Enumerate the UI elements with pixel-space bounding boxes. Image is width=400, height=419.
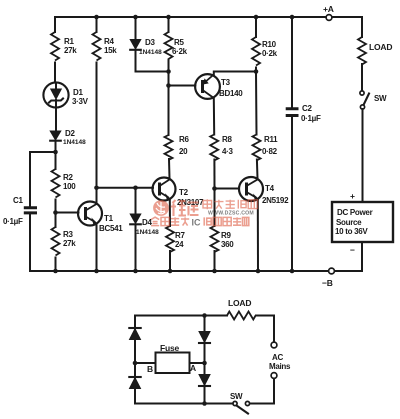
- resistor LOAD (top): [358, 37, 366, 65]
- wire fuse B: [135, 362, 156, 364]
- svg-text:T3: T3: [221, 78, 231, 87]
- svg-text:R7: R7: [175, 231, 185, 240]
- wire fuse A: [190, 362, 205, 364]
- svg-text:R2: R2: [63, 173, 73, 182]
- svg-text:1N4148: 1N4148: [63, 139, 86, 146]
- svg-text:R1: R1: [64, 37, 74, 46]
- wire SW to DC source: [362, 109, 364, 202]
- wire T4 emitter to rail: [257, 200, 259, 272]
- svg-text:WWW.DZSC.COM: WWW.DZSC.COM: [208, 211, 254, 217]
- wire R10 top: [255, 17, 257, 37]
- wire right branch to LOAD: [361, 17, 363, 37]
- wire D4 top: [135, 188, 137, 214]
- node AC mains top: [271, 342, 277, 348]
- watermark big char 1: [171, 200, 199, 216]
- wire R3 to bottom rail: [55, 258, 57, 272]
- resistor R6: [165, 135, 173, 160]
- wire R4 to T1 collector node: [96, 63, 98, 188]
- node C2 top: [290, 15, 295, 20]
- diode D3 1N4148: [130, 40, 141, 50]
- node R10 top: [254, 15, 259, 20]
- diode D1 zener 3.3V: [43, 82, 68, 107]
- svg-text:R10: R10: [262, 40, 277, 49]
- wire D1 to D2: [55, 108, 57, 132]
- svg-text:Fuse: Fuse: [160, 343, 180, 353]
- watermark big char 2: [188, 203, 199, 216]
- svg-text:T2: T2: [179, 188, 189, 197]
- watermark slogan chars: [151, 217, 249, 227]
- svg-text:R9: R9: [221, 231, 231, 240]
- wire T3 emitter to R10/R11 node: [214, 72, 256, 75]
- svg-text:D2: D2: [65, 129, 75, 138]
- svg-text:0·2k: 0·2k: [262, 49, 278, 58]
- node T4 emitter rail: [256, 269, 261, 274]
- node D3 top: [133, 15, 138, 20]
- svg-text:LOAD: LOAD: [228, 298, 251, 308]
- wire R9 to rail: [214, 251, 216, 271]
- watermark site name chars: [203, 199, 257, 209]
- svg-text:R5: R5: [174, 38, 184, 47]
- svg-text:Source: Source: [336, 218, 362, 227]
- wire DC source to bottom rail: [361, 242, 363, 271]
- node R2/R3 to T1 base: [53, 210, 58, 215]
- svg-text:360: 360: [221, 240, 234, 249]
- node T1 collector / T2 base: [94, 185, 99, 190]
- diode bridge bottom-left: [129, 376, 140, 378]
- svg-text:R3: R3: [63, 230, 73, 239]
- node R5 top: [166, 15, 171, 20]
- svg-text:0·82: 0·82: [262, 147, 278, 156]
- wire SW to bridge bottom: [135, 403, 233, 405]
- svg-text:27k: 27k: [63, 239, 76, 248]
- svg-text:+: +: [350, 191, 355, 201]
- svg-text:T1: T1: [104, 214, 114, 223]
- transistor T2 2N3107: [153, 178, 176, 201]
- node R9 rail: [212, 269, 217, 274]
- svg-text:T4: T4: [265, 184, 275, 193]
- svg-text:R11: R11: [264, 135, 278, 144]
- wire LOAD to AC mains: [256, 316, 274, 343]
- wire C1 bottom: [29, 215, 31, 272]
- svg-text:15k: 15k: [104, 46, 117, 55]
- resistor R7: [166, 226, 174, 252]
- resistor R4: [93, 32, 101, 61]
- svg-text:C2: C2: [302, 104, 312, 113]
- wire bottom rail: [30, 270, 362, 272]
- DC power source box U1: [332, 202, 393, 242]
- node D3 elbow: [166, 69, 171, 74]
- fuse F1 box: [156, 353, 190, 374]
- wire T4 base: [215, 188, 240, 190]
- wire R2 to R3: [55, 200, 57, 228]
- svg-text:0·1µF: 0·1µF: [301, 114, 321, 123]
- svg-text:IC: IC: [192, 217, 202, 227]
- transistor T3 BD140 (PNP): [195, 74, 220, 99]
- wire R6 to T2 collector: [168, 159, 171, 179]
- svg-text:AC: AC: [272, 353, 283, 362]
- wire R10 to node: [255, 68, 257, 72]
- wire bridge right vertical: [204, 316, 206, 404]
- svg-text:100: 100: [63, 182, 76, 191]
- svg-text:C1: C1: [13, 196, 23, 205]
- diode D2 1N4148: [50, 131, 61, 140]
- wire C2 bottom: [291, 117, 293, 271]
- resistor R11: [253, 135, 261, 161]
- watermark badge: [153, 200, 169, 216]
- wire D4 to rail: [135, 225, 137, 272]
- wire R7 to rail: [169, 251, 171, 271]
- svg-text:R4: R4: [104, 37, 114, 46]
- node +A terminal: [326, 15, 332, 21]
- resistor R3: [52, 227, 60, 255]
- svg-text:LOAD: LOAD: [369, 42, 392, 52]
- wire T3 base: [169, 85, 196, 87]
- svg-text:3·3V: 3·3V: [72, 97, 89, 106]
- resistor LOAD (bottom): [227, 312, 256, 320]
- wire T1 base: [56, 212, 79, 214]
- svg-text:20: 20: [179, 147, 188, 156]
- capacitor C2: [286, 109, 299, 116]
- node AC mains bottom: [271, 373, 277, 379]
- node R7 rail: [168, 269, 173, 274]
- node R8/R9/T4 base: [212, 186, 217, 191]
- wire R5 top: [168, 17, 170, 32]
- node bridge bottom right: [202, 401, 207, 406]
- svg-text:+A: +A: [323, 4, 334, 14]
- node R4 top: [94, 15, 99, 20]
- wire D3 top: [135, 17, 137, 40]
- svg-text:R6: R6: [179, 135, 189, 144]
- node -B terminal: [329, 268, 335, 274]
- resistor R10: [252, 37, 260, 66]
- node R10/R11/T3e: [254, 69, 259, 74]
- switch SW (upper): [360, 91, 364, 95]
- node fuse B junction: [133, 361, 138, 366]
- svg-text:BC541: BC541: [99, 224, 123, 233]
- svg-text:R8: R8: [222, 135, 232, 144]
- svg-text:6·2k: 6·2k: [172, 47, 188, 56]
- wire top rail: [55, 16, 362, 18]
- node fuse A junction: [202, 361, 207, 366]
- node D4 rail: [133, 269, 138, 274]
- wire T1 collector lead: [96, 188, 98, 204]
- svg-text:−B: −B: [322, 278, 333, 288]
- resistor R5: [165, 32, 173, 59]
- wire R11 to T4 collector: [256, 160, 259, 179]
- wire D2 down through node to R2: [55, 141, 57, 169]
- diode bridge top-right: [199, 332, 210, 343]
- wire R4 top: [96, 17, 98, 32]
- wire R1 to D1: [54, 63, 56, 83]
- wire T1 emitter to rail: [96, 224, 98, 272]
- resistor R9: [211, 226, 219, 252]
- svg-text:24: 24: [175, 240, 184, 249]
- node bridge top right: [202, 313, 207, 318]
- diode bridge top-left: [129, 327, 140, 329]
- resistor R2: [52, 169, 60, 197]
- wire R5 to R6: [168, 60, 170, 136]
- node T1 emitter rail: [94, 269, 99, 274]
- resistor R1: [51, 32, 59, 61]
- wire AC mains to SW: [250, 379, 274, 404]
- switch SW (lower): [245, 401, 249, 405]
- wire base bus to T2: [97, 187, 154, 189]
- wire R1 branch top: [54, 17, 56, 32]
- transistor T4 2N5192: [239, 177, 263, 201]
- diode D4 1N4148: [130, 214, 141, 224]
- node D4 tap: [133, 185, 138, 190]
- wire T3 collector: [213, 98, 215, 135]
- wire D3 to R5 branch: [136, 50, 169, 72]
- svg-text:DC Power: DC Power: [337, 208, 373, 217]
- svg-text:SW: SW: [374, 94, 387, 103]
- svg-text:1N4148: 1N4148: [139, 49, 162, 56]
- resistor R8: [210, 135, 218, 161]
- svg-text:1N4148: 1N4148: [136, 229, 159, 236]
- svg-text:BD140: BD140: [219, 89, 243, 98]
- capacitor C1: [24, 208, 37, 213]
- wire R11 top: [255, 72, 258, 135]
- wire bridge left vertical: [134, 316, 136, 404]
- svg-text:2N5192: 2N5192: [262, 196, 289, 205]
- node D2/C1 junction: [53, 150, 58, 155]
- wire R8 to T4 base node: [213, 160, 215, 189]
- svg-text:D3: D3: [145, 38, 155, 47]
- node T3 base tap: [166, 83, 171, 88]
- wire bridge top: [135, 315, 227, 317]
- diode bridge bottom-right: [199, 375, 210, 386]
- transistor T1 BC541: [78, 202, 102, 226]
- svg-text:−: −: [350, 245, 355, 255]
- svg-text:B: B: [147, 364, 153, 374]
- node C2 rail: [290, 269, 295, 274]
- wire T2 emitter to R7: [169, 199, 171, 226]
- svg-text:SW: SW: [230, 392, 243, 401]
- svg-text:4·3: 4·3: [222, 147, 234, 156]
- wire C2 top: [291, 17, 293, 107]
- svg-text:D1: D1: [73, 88, 83, 97]
- wire LOAD to SW: [361, 64, 363, 91]
- svg-text:0·1µF: 0·1µF: [3, 217, 23, 226]
- node R3 rail: [53, 269, 58, 274]
- svg-text:10 to 36V: 10 to 36V: [335, 227, 368, 236]
- svg-text:27k: 27k: [64, 46, 77, 55]
- svg-text:A: A: [190, 363, 196, 373]
- wire C1 top: [29, 152, 31, 206]
- wire R9 top: [214, 189, 216, 227]
- svg-text:Mains: Mains: [269, 362, 291, 371]
- wire junction to C1: [30, 151, 56, 153]
